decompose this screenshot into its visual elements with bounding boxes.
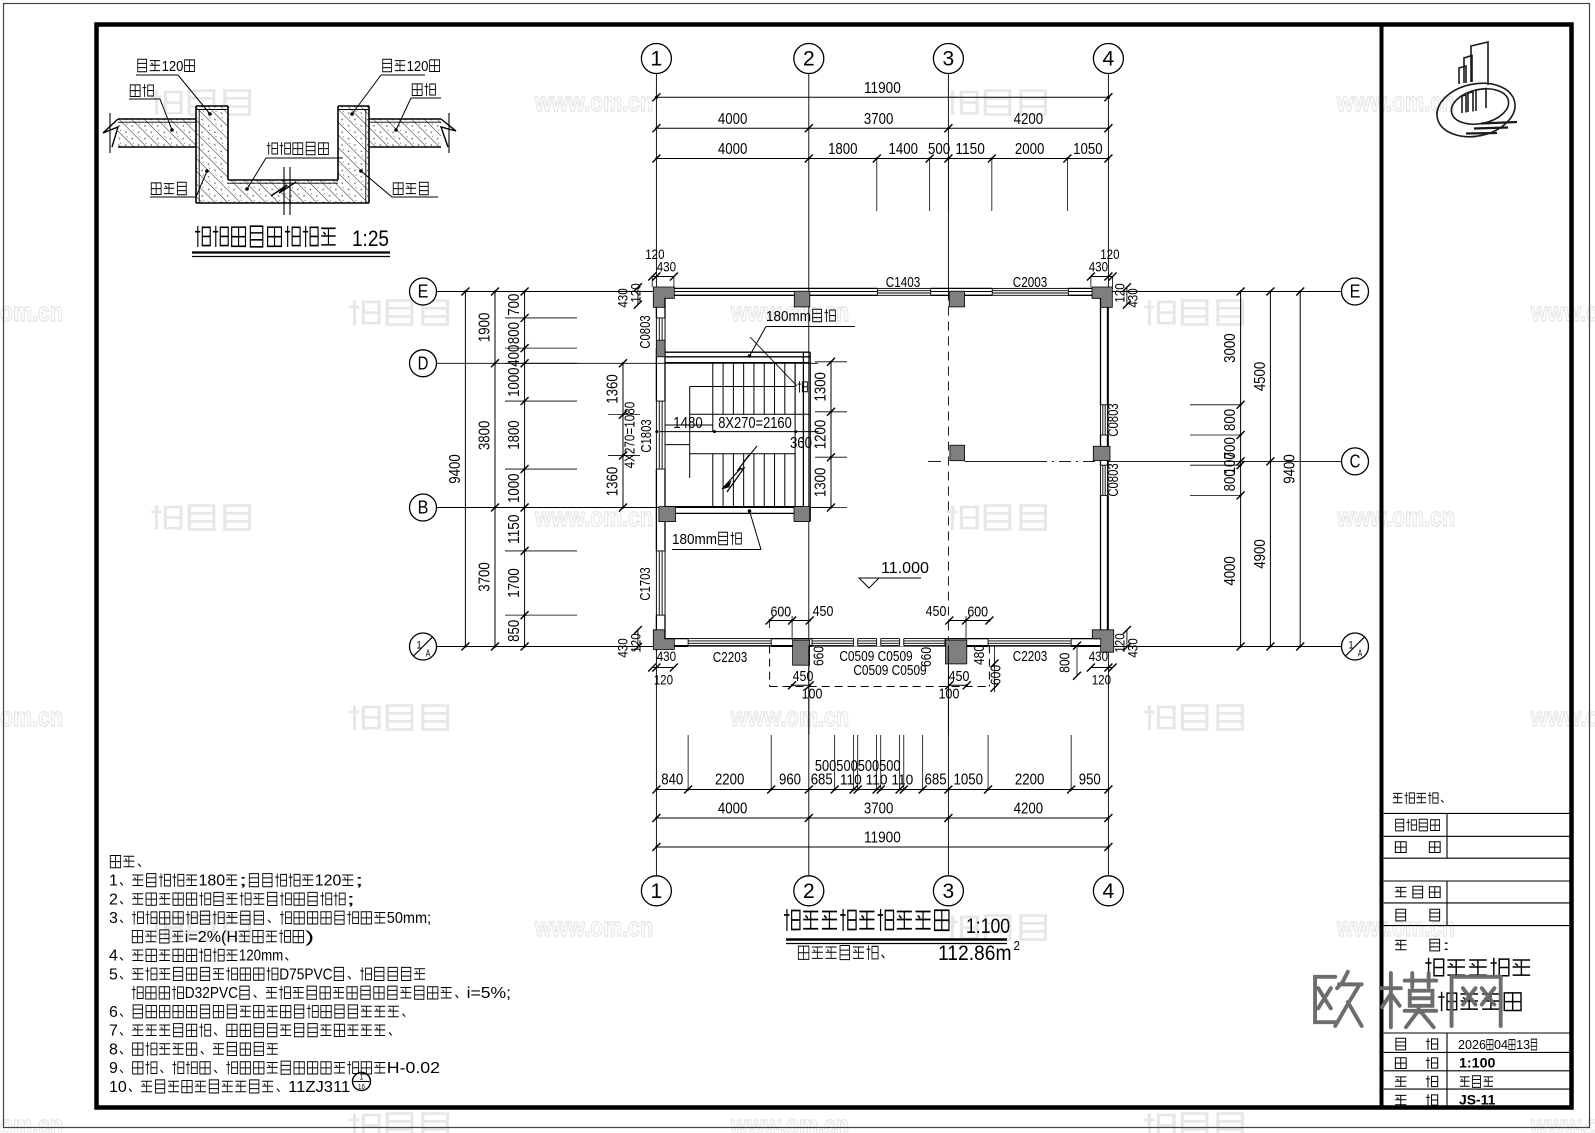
column E x 1 (corner L) (653, 287, 674, 307)
svg-text:2200: 2200 (1015, 772, 1045, 789)
svg-text:3: 3 (109, 910, 118, 927)
svg-text:120: 120 (315, 873, 342, 890)
column A x 2 (protruding) (793, 640, 810, 665)
svg-text:11ZJ311: 11ZJ311 (288, 1079, 350, 1096)
window C1803 left wall stair (656, 401, 666, 469)
svg-text:www.om.cn: www.om.cn (534, 502, 653, 532)
svg-text:C2203: C2203 (1013, 648, 1048, 665)
svg-text:2200: 2200 (715, 772, 745, 789)
svg-text:600: 600 (967, 604, 988, 621)
svg-text:1360: 1360 (605, 467, 622, 497)
left overall 9400 (464, 292, 466, 647)
svg-text:3000: 3000 (1222, 333, 1239, 363)
svg-text:120: 120 (1111, 283, 1127, 302)
window C0803 right wall lower (1100, 465, 1109, 495)
svg-text:1300: 1300 (813, 372, 830, 402)
svg-text:1400: 1400 (888, 141, 918, 158)
svg-text:www.om.cn: www.om.cn (730, 1110, 849, 1133)
svg-text:C1803: C1803 (639, 419, 655, 452)
window C2203 bottom wall left (688, 638, 771, 647)
svg-text:;: ; (239, 873, 248, 890)
svg-text:11900: 11900 (864, 80, 901, 97)
svg-text:1:100: 1:100 (966, 915, 1010, 938)
dashed canopy outline (769, 646, 771, 687)
pier D x 1 (656, 340, 665, 357)
bottom overall 11900 (656, 846, 1108, 848)
svg-text:500: 500 (928, 141, 950, 158)
svg-text:3: 3 (943, 48, 955, 71)
svg-text:5: 5 (109, 966, 118, 983)
column B x 2 (794, 507, 810, 522)
svg-text:1480: 1480 (673, 415, 703, 432)
svg-text:C1403: C1403 (886, 274, 921, 291)
svg-text:6: 6 (109, 1004, 118, 1021)
svg-text:180: 180 (199, 873, 226, 890)
right sub chain (1240, 292, 1242, 647)
svg-text:1700: 1700 (506, 568, 523, 598)
svg-text:;: ; (355, 873, 364, 890)
svg-text:7: 7 (109, 1023, 118, 1040)
big gray watermark (1315, 972, 1501, 1027)
detail labels (138, 59, 147, 71)
note 10 circled ref (353, 1073, 371, 1091)
plan title (784, 909, 800, 931)
svg-text:1200: 1200 (813, 420, 830, 450)
column C x 3 (950, 445, 965, 461)
svg-text:3700: 3700 (864, 111, 894, 128)
window C1403 top wall (877, 288, 930, 297)
svg-text:3: 3 (943, 880, 955, 903)
stair down label (798, 381, 808, 392)
svg-text:www.om.cn: www.om.cn (1336, 502, 1455, 532)
right chain 4500/4900 (1269, 292, 1271, 647)
svg-text:www.om.cn: www.om.cn (730, 702, 849, 732)
svg-text:100: 100 (939, 686, 960, 703)
svg-text:1360: 1360 (605, 374, 622, 404)
svg-text:D32PVC: D32PVC (185, 985, 238, 1002)
svg-text:;: ; (346, 891, 355, 908)
svg-text:C0803: C0803 (1106, 403, 1122, 436)
svg-text:430: 430 (1089, 259, 1108, 275)
column E x 3 (949, 291, 964, 307)
right exterior wall 4 (1107, 288, 1109, 645)
svg-text:800: 800 (1222, 409, 1239, 431)
svg-text:430: 430 (1089, 648, 1108, 664)
column A x 4 (corner L) (1092, 630, 1113, 652)
top dim chain 4000/3700/4200 (656, 127, 1108, 129)
svg-text:1800: 1800 (506, 420, 523, 450)
svg-text:800: 800 (1058, 653, 1074, 673)
stair lower flight treads (690, 453, 795, 455)
svg-text:4000: 4000 (718, 801, 748, 818)
grid bubbles right (1342, 278, 1369, 305)
svg-text:1000: 1000 (506, 367, 523, 397)
svg-text:850: 850 (506, 620, 523, 642)
svg-text:www.om.cn: www.om.cn (0, 1110, 63, 1133)
svg-text:C0509 C0509: C0509 C0509 (853, 663, 926, 679)
svg-text:430: 430 (657, 259, 676, 275)
interior wall D (stair top, 180mm) (665, 351, 810, 353)
column E x 2 (794, 291, 810, 307)
title block left edge (1380, 25, 1384, 1108)
svg-text:2: 2 (1014, 938, 1021, 953)
svg-text:700: 700 (506, 294, 523, 316)
svg-text:E: E (1350, 282, 1361, 302)
svg-text:120: 120 (627, 283, 643, 302)
svg-text:C0803: C0803 (638, 315, 654, 348)
logo emblem (1432, 42, 1520, 144)
svg-text:10: 10 (109, 1079, 127, 1096)
column C x 4 (1093, 446, 1110, 460)
column E x 4 (corner L) (1092, 287, 1112, 307)
svg-text:4200: 4200 (1014, 111, 1044, 128)
grid axis vertical lines (655, 73, 657, 878)
title block labels (1393, 793, 1403, 802)
window C0803 right wall upper (1100, 405, 1109, 435)
svg-text:1050: 1050 (1073, 141, 1103, 158)
svg-text:8: 8 (109, 1041, 118, 1058)
left tick extension lines (505, 317, 577, 319)
title block number row (1395, 1095, 1406, 1104)
svg-text:120mm: 120mm (239, 948, 283, 965)
stair break line + arrow (727, 455, 749, 492)
svg-text:2: 2 (109, 891, 118, 908)
top exterior wall E (654, 287, 1113, 289)
svg-text:1: 1 (651, 880, 663, 903)
column A x 3 (protruding) (946, 640, 967, 664)
detail drawing: slab/pool section (118, 119, 199, 147)
svg-text:4X270=1080: 4X270=1080 (623, 402, 639, 469)
svg-text:360: 360 (790, 435, 812, 452)
svg-text:4: 4 (1103, 48, 1115, 71)
svg-text:960: 960 (779, 772, 801, 789)
svg-text:B: B (418, 498, 429, 518)
window C2203 bottom wall right (988, 638, 1071, 647)
svg-text:www.om.cn: www.om.cn (534, 87, 653, 117)
svg-text:1: 1 (651, 48, 663, 71)
column A x 1 (corner L) (653, 630, 674, 650)
svg-text:1: 1 (360, 1072, 364, 1082)
svg-text:1:100: 1:100 (1459, 1055, 1496, 1071)
grid axis horizontal lines (437, 291, 1342, 293)
grid bubbles left (410, 278, 437, 305)
title block rows (1384, 812, 1570, 814)
dims 600/450 left of axis2 (770, 620, 810, 622)
svg-text:D75PVC: D75PVC (279, 966, 332, 983)
svg-text:1150: 1150 (506, 514, 523, 544)
svg-text:www.om.cn: www.om.cn (0, 297, 63, 327)
right tick extension lines (1190, 404, 1241, 406)
svg-text:4: 4 (1103, 880, 1115, 903)
svg-text:800: 800 (506, 322, 523, 344)
bottom exterior wall A (654, 645, 1113, 647)
svg-text:1:25: 1:25 (352, 226, 389, 251)
svg-text:840: 840 (661, 772, 683, 789)
svg-text:1050: 1050 (954, 772, 984, 789)
svg-text:800: 800 (1222, 469, 1239, 491)
bottom tick extension lines (687, 735, 689, 790)
svg-text:4000: 4000 (1222, 556, 1239, 586)
svg-text:13: 13 (1516, 1038, 1530, 1052)
floor area text (798, 946, 809, 959)
svg-text:120: 120 (1092, 672, 1111, 688)
svg-text:C2203: C2203 (713, 649, 748, 666)
stair rail lines (690, 413, 809, 415)
left exterior wall 1 (655, 288, 657, 651)
title block scale row (1395, 1058, 1406, 1069)
top tick extension lines (876, 159, 878, 212)
svg-text:04: 04 (1494, 1038, 1508, 1052)
svg-text::: : (1442, 938, 1450, 953)
title block category row (1395, 1077, 1406, 1086)
svg-text:11.000: 11.000 (881, 560, 929, 577)
svg-text:3700: 3700 (477, 562, 494, 592)
svg-text:1900: 1900 (477, 313, 494, 343)
svg-text:120: 120 (654, 672, 673, 688)
svg-text:11900: 11900 (864, 830, 901, 847)
svg-text:4500: 4500 (1252, 362, 1269, 392)
svg-text:JS-11: JS-11 (1459, 1092, 1496, 1108)
top dim chain 11900 (656, 96, 1108, 98)
svg-text:A: A (1358, 649, 1363, 660)
svg-text:www.om.cn: www.om.cn (1530, 1110, 1595, 1133)
svg-text:950: 950 (1079, 772, 1101, 789)
svg-text:1: 1 (109, 873, 118, 890)
svg-text:2026: 2026 (1458, 1038, 1486, 1052)
svg-text:1: 1 (1348, 640, 1353, 652)
svg-text:685: 685 (924, 772, 946, 789)
svg-text:4000: 4000 (718, 141, 748, 158)
1/A bubble right (1342, 633, 1369, 660)
stair right dim chain 1300/1200/1300 (830, 362, 832, 508)
svg-text:4000: 4000 (718, 111, 748, 128)
svg-text:D: D (418, 353, 429, 373)
svg-text:450: 450 (926, 603, 947, 620)
interior wall at axis 2 (stair right, 180mm) (802, 352, 804, 513)
svg-text:www.om.cn: www.om.cn (534, 912, 653, 942)
svg-text:2: 2 (803, 48, 815, 71)
notes block (110, 855, 120, 867)
svg-text:3700: 3700 (864, 801, 894, 818)
svg-text:4200: 4200 (1014, 801, 1044, 818)
1/A bubble left (410, 633, 437, 660)
column B x 1 (659, 507, 676, 522)
svg-text:2: 2 (803, 880, 815, 903)
bottom sub chain (656, 789, 1108, 791)
stair left dim chain 1360/1080/1360 (622, 363, 624, 507)
svg-text:8X270=2160: 8X270=2160 (718, 415, 792, 432)
svg-text:C: C (1350, 451, 1361, 471)
svg-text:100: 100 (802, 686, 823, 703)
svg-text:www.om.cn: www.om.cn (1530, 297, 1595, 327)
svg-text:i=5%;: i=5%; (467, 985, 511, 1002)
right overall 9400 (1299, 292, 1301, 647)
svg-text:H-0.02: H-0.02 (387, 1060, 440, 1077)
svg-text:2000: 2000 (1015, 141, 1045, 158)
svg-text:4900: 4900 (1252, 539, 1269, 569)
axis 2 below wall (808, 646, 810, 735)
svg-text:480: 480 (972, 645, 988, 665)
top dim sub chain (656, 158, 1108, 160)
left chain 1900/3800/3700 (494, 292, 496, 647)
svg-text:3800: 3800 (477, 421, 494, 451)
svg-text:E: E (418, 282, 429, 302)
svg-text:180mm: 180mm (672, 532, 717, 548)
detail title (195, 226, 210, 247)
svg-text:112.86m: 112.86m (938, 942, 1012, 965)
svg-text:9400: 9400 (447, 454, 464, 484)
svg-text:180mm: 180mm (766, 309, 811, 325)
svg-text:450: 450 (813, 603, 834, 620)
interior wall B (stair bottom) (665, 506, 803, 508)
window C0803 left wall upper (656, 318, 666, 348)
svg-text:www.om.cn: www.om.cn (0, 702, 63, 732)
svg-text:120: 120 (407, 59, 429, 75)
svg-text:16: 16 (358, 1082, 365, 1091)
bottom chain 4000/3700/4200 (656, 817, 1108, 819)
svg-text:1150: 1150 (955, 141, 985, 158)
grid bubbles bottom (641, 876, 671, 906)
grid bubbles top (641, 44, 671, 74)
svg-text:C1703: C1703 (638, 567, 654, 600)
svg-text:9: 9 (109, 1060, 118, 1077)
svg-text:C0803: C0803 (1106, 463, 1122, 496)
svg-text:50mm;: 50mm; (387, 910, 431, 927)
windows C0509 group bottom wall (812, 638, 945, 647)
svg-text:1300: 1300 (813, 468, 830, 498)
svg-text:1800: 1800 (828, 141, 858, 158)
left sub chain (524, 292, 526, 647)
svg-text:4: 4 (109, 948, 118, 965)
svg-text:i=2%(H: i=2%(H (185, 929, 238, 946)
svg-text:660: 660 (812, 646, 828, 666)
dims 450/600 right of axis3 (949, 620, 989, 622)
svg-text:430: 430 (657, 648, 676, 664)
svg-text:C2003: C2003 (1013, 274, 1048, 291)
svg-text:660: 660 (919, 647, 935, 667)
window C1703 left wall lower (656, 551, 666, 615)
svg-text:A: A (426, 649, 431, 660)
svg-text:600: 600 (771, 604, 792, 621)
window C2003 top wall (992, 288, 1068, 297)
stair upper flight treads (665, 362, 809, 364)
svg-text:120: 120 (162, 59, 184, 75)
svg-text:600: 600 (989, 665, 1005, 685)
svg-text:1000: 1000 (506, 473, 523, 503)
svg-text:1: 1 (416, 640, 421, 652)
svg-text:9400: 9400 (1282, 454, 1299, 484)
title block date row (1396, 1038, 1406, 1050)
svg-text:www.om.cn: www.om.cn (1530, 702, 1595, 732)
svg-text:): ) (305, 929, 314, 946)
title block big name (1425, 958, 1443, 977)
